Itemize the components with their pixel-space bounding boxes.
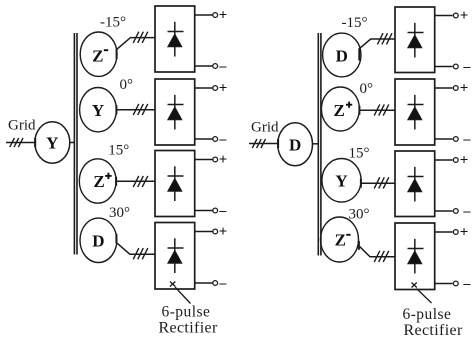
phase label -15 deg (left row 1) <box>100 14 126 30</box>
leader line x-mark to caption (left) <box>170 282 191 304</box>
wire: grid feed (left) <box>6 138 36 147</box>
svg-text:–: – <box>462 204 471 219</box>
bus (right, double line) <box>318 33 321 256</box>
output + terminal (right rectifier 2) <box>435 81 469 97</box>
diode D6 (right rectifier 2) <box>408 95 424 130</box>
3-phase slash marks on grid feed (right) <box>252 139 265 148</box>
rectifier box 4 (right) <box>395 223 435 290</box>
net label Grid (left) <box>8 118 36 134</box>
svg-text:0°: 0° <box>360 81 374 97</box>
svg-text:+: + <box>460 8 469 24</box>
svg-text:+: + <box>460 225 469 241</box>
svg-text:+: + <box>219 81 228 97</box>
3-phase slash marks row 2 (right) <box>374 104 389 115</box>
bus (left, double line) <box>74 33 77 255</box>
rectifier box 3 (left) <box>155 151 195 217</box>
output - terminal (right rectifier 4) <box>435 276 472 291</box>
svg-text:Z: Z <box>335 231 346 250</box>
output - terminal (left rectifier 3) <box>195 203 228 218</box>
wire: grid transformer to bus (left) <box>70 142 75 144</box>
svg-text:Grid: Grid <box>8 118 36 134</box>
output - terminal (right rectifier 3) <box>435 204 472 219</box>
transformer D (left row 4) <box>80 218 117 262</box>
transformer Z+ (left row 3) <box>79 159 116 203</box>
svg-text:0°: 0° <box>120 77 134 93</box>
diode D1 (left rectifier 1) <box>168 22 184 57</box>
3-phase slash marks on grid feed (left) <box>10 138 23 147</box>
transformer primary D (right grid transformer) <box>278 123 313 166</box>
svg-text:15°: 15° <box>108 142 129 158</box>
transformer Z- (left row 1) <box>80 32 117 76</box>
caption 6-pulse Rectifier (right) <box>403 306 463 339</box>
rectifier box 4 (left) <box>155 223 195 290</box>
wire: Y to rectifier 3 (right) <box>361 179 395 188</box>
output + terminal (left rectifier 2) <box>195 81 228 97</box>
wire: Z- to rectifier 1 (left) <box>117 38 155 59</box>
phase label 15 deg (left row 3) <box>108 142 129 158</box>
output + terminal (left rectifier 3) <box>195 152 228 168</box>
svg-text:Z: Z <box>92 46 103 65</box>
output + terminal (left rectifier 1) <box>195 8 228 24</box>
rectifier box 2 (left) <box>155 79 195 145</box>
svg-text:Y: Y <box>92 101 104 120</box>
wire: Z+ to rectifier 2 (right) <box>359 106 395 115</box>
transformer D (right row 1) <box>323 33 361 77</box>
wire: grid feed (right) <box>249 139 279 148</box>
svg-text:Z: Z <box>93 172 104 191</box>
svg-text:Y: Y <box>46 134 58 153</box>
svg-text:–: – <box>218 59 227 74</box>
3-phase slash marks row 2 (left) <box>133 104 148 115</box>
phase label 0 deg (right row 2) <box>360 81 374 97</box>
svg-text:Z: Z <box>334 101 345 120</box>
output + terminal (right rectifier 3) <box>435 153 469 169</box>
wire: D to rectifier 4 (left) <box>116 234 155 254</box>
transformer Y (left row 2) <box>80 88 117 132</box>
svg-text:Grid: Grid <box>251 120 279 136</box>
wire: D to rectifier 1 (right) <box>359 39 395 61</box>
svg-text:–: – <box>462 132 471 147</box>
leader line x-mark to caption (right) <box>412 283 432 304</box>
svg-text:30°: 30° <box>109 205 130 221</box>
rectifier box 1 (right) <box>395 7 435 73</box>
output - terminal (right rectifier 2) <box>435 132 472 147</box>
wire: grid transformer to bus (right) <box>313 143 319 145</box>
rectifier box 2 (right) <box>395 79 435 145</box>
svg-text:D: D <box>336 46 348 65</box>
3-phase slash marks row 3 (right) <box>374 177 389 188</box>
svg-text:–: – <box>218 132 227 147</box>
3-phase slash marks row 3 (left) <box>133 176 148 187</box>
diode D2 (left rectifier 2) <box>168 95 184 130</box>
output + terminal (right rectifier 1) <box>435 8 469 24</box>
wire: Y to rectifier 2 (left) <box>116 105 155 114</box>
svg-text:–: – <box>218 276 227 291</box>
output + terminal (right rectifier 4) <box>435 225 469 241</box>
svg-text:6-pulse: 6-pulse <box>162 304 211 321</box>
transformer Z- (right row 4) <box>321 217 359 262</box>
svg-text:+: + <box>219 224 228 240</box>
3-phase slash marks row 1 (left) <box>133 32 148 43</box>
phase label 30 deg (right row 4) <box>349 206 370 222</box>
phase label 15 deg (right row 3) <box>349 146 370 162</box>
svg-text:D: D <box>92 232 104 251</box>
svg-text:-15°: -15° <box>100 14 126 30</box>
diode D7 (right rectifier 3) <box>408 167 424 202</box>
diode D4 (left rectifier 4) <box>168 238 184 273</box>
svg-text:30°: 30° <box>349 206 370 222</box>
output - terminal (right rectifier 1) <box>435 59 472 74</box>
diode D5 (right rectifier 1) <box>408 23 424 58</box>
svg-text:-15°: -15° <box>342 15 368 31</box>
svg-text:+: + <box>219 8 228 24</box>
svg-text:–: – <box>462 276 471 291</box>
svg-text:Rectifier: Rectifier <box>404 322 463 339</box>
svg-text:–: – <box>218 203 227 218</box>
diode D3 (left rectifier 3) <box>168 166 184 201</box>
phase label 30 deg (left row 4) <box>109 205 130 221</box>
transformer Z+ (right row 2) <box>321 87 359 131</box>
wire: Z+ to rectifier 3 (left) <box>116 177 155 186</box>
rectifier box 3 (right) <box>395 151 435 217</box>
3-phase slash marks row 1 (right) <box>377 33 392 44</box>
svg-text:D: D <box>289 136 301 155</box>
diode D8 (right rectifier 4) <box>408 239 424 274</box>
svg-text:+: + <box>460 153 469 169</box>
net label Grid (right) <box>251 120 279 136</box>
phase label 0 deg (left row 2) <box>120 77 134 93</box>
rectifier box 1 (left) <box>155 6 195 72</box>
transformer Y (right row 3) <box>322 159 361 203</box>
output - terminal (left rectifier 2) <box>195 132 228 147</box>
svg-text:15°: 15° <box>349 146 370 162</box>
3-phase slash marks row 4 (left) <box>133 248 148 259</box>
svg-text:+: + <box>219 152 228 168</box>
3-phase slash marks row 4 (right) <box>374 251 389 262</box>
svg-text:–: – <box>462 59 471 74</box>
caption 6-pulse Rectifier (left) <box>159 304 218 337</box>
output - terminal (left rectifier 4) <box>195 276 228 291</box>
output - terminal (left rectifier 1) <box>195 59 228 74</box>
output + terminal (left rectifier 4) <box>195 224 228 240</box>
svg-text:Rectifier: Rectifier <box>159 320 218 337</box>
wire: Z- to rectifier 4 (right) <box>359 241 395 257</box>
svg-text:+: + <box>460 81 469 97</box>
svg-text:Y: Y <box>335 172 347 191</box>
transformer primary Y (left grid transformer) <box>35 122 70 163</box>
svg-text:6-pulse: 6-pulse <box>403 306 452 323</box>
phase label -15 deg (right row 1) <box>342 15 368 31</box>
